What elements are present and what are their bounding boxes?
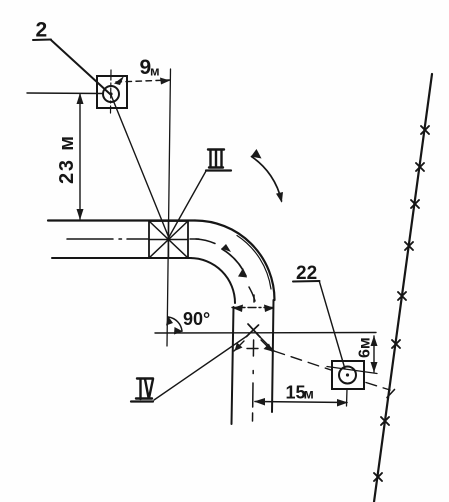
- dimension 23m top extension line: [27, 92, 103, 95]
- marker 2 circle: [103, 86, 119, 102]
- curve end cross-section dash-dot: [232, 307, 275, 309]
- dimension 15m right arrowhead: [337, 399, 348, 407]
- dashed sight line IV vertex to boundary: [256, 333, 274, 351]
- svg-text:90°: 90°: [183, 309, 210, 329]
- leader from III to intersection: [169, 171, 206, 237]
- dimension 15m left arrowhead: [254, 398, 265, 406]
- boundary X marks: [374, 126, 429, 481]
- dimension 23m vertical line: [79, 94, 81, 219]
- svg-text:6м: 6м: [357, 337, 374, 358]
- horizontal construction line through IV vertex: [155, 332, 376, 335]
- marker 22 circle: [339, 367, 356, 384]
- marker 22 horizontal line to 6m dimension: [327, 367, 377, 374]
- road bottom edge (horizontal approach): [52, 257, 191, 259]
- road inner curve: [190, 258, 235, 303]
- label III strokes: [208, 150, 224, 168]
- curve end right arrowhead: [264, 305, 275, 313]
- dimension 15m line: [255, 402, 347, 403]
- leader from IV to vertex: [154, 336, 247, 400]
- marker 22 square: [332, 361, 364, 389]
- svg-text:23 м: 23 м: [56, 134, 78, 184]
- intersection square diagonal 1: [149, 221, 188, 258]
- dimension 9m dashed line: [116, 80, 170, 82]
- svg-text:м: м: [150, 64, 160, 79]
- leader from label 2 to marker 2: [51, 40, 110, 94]
- 90 degree angle arc: [168, 317, 182, 331]
- road left edge (vertical leg): [232, 307, 234, 424]
- transition cross-section marks at y=348: [247, 348, 258, 350]
- curve end left arrowhead: [233, 305, 244, 313]
- X mark at tangent intersection (IV vertex): [248, 324, 260, 337]
- svg-text:2: 2: [36, 19, 48, 42]
- sight line marker 2 to intersection: [111, 95, 169, 238]
- marker 22 center dot: [346, 373, 349, 376]
- dimension 6m top arrowhead: [371, 336, 378, 347]
- leader from 22 to marker 22: [320, 282, 346, 369]
- tick at boundary crossing: [387, 390, 395, 398]
- marker 2 square: [97, 76, 127, 108]
- marker 2 vertical centerline: [110, 70, 113, 113]
- marker 2 center dot: [109, 92, 112, 95]
- intersection square: [149, 221, 188, 258]
- road axis dash-dot vertical: [253, 295, 255, 302]
- label III underline: [206, 169, 231, 171]
- road outer curve: [195, 221, 275, 301]
- marker 22 vertical centerline below: [346, 389, 349, 406]
- intersection square horizontal midline: [149, 239, 188, 241]
- intersection square diagonal 2: [149, 221, 188, 258]
- outer curve echo stroke: [237, 236, 271, 290]
- intersection square vertical midline: [168, 221, 170, 258]
- rotation curved arrow top right: [252, 157, 282, 202]
- label 22 underline: [293, 280, 320, 283]
- vertical construction line through intersection: [167, 69, 171, 346]
- road top edge (horizontal approach): [48, 219, 195, 221]
- dimension 6m bottom arrowhead: [371, 362, 378, 373]
- bend direction curved arrow: [222, 249, 246, 276]
- label IV underline: [131, 400, 153, 402]
- dimension 9m left arrowhead: [114, 76, 124, 85]
- svg-text:м: м: [304, 386, 314, 402]
- dimension 23m bottom arrowhead: [77, 209, 84, 220]
- road axis curve dash-dot: [196, 239, 215, 244]
- boundary line: [374, 74, 432, 502]
- label IV strokes: [136, 379, 153, 400]
- road right edge (vertical leg): [272, 300, 274, 412]
- road axis dash-dot horizontal: [67, 238, 113, 240]
- dimension 23m top arrowhead: [77, 93, 84, 104]
- label 2 underline: [33, 39, 51, 42]
- dimension 6m vertical line: [373, 336, 375, 372]
- dimension 9m right arrowhead: [160, 78, 170, 85]
